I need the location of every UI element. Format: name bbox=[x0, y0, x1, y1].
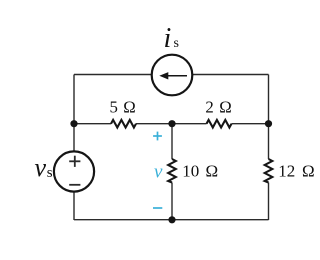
svg-text:5 Ω: 5 Ω bbox=[110, 97, 136, 116]
current source arrow bbox=[165, 75, 188, 77]
svg-text:10 Ω: 10 Ω bbox=[182, 162, 218, 181]
node dot left bbox=[70, 120, 77, 127]
voltage source minus sign bbox=[69, 184, 80, 186]
resistor R 2ohm zigzag bbox=[207, 120, 232, 128]
wire bottom rail bbox=[74, 219, 269, 221]
polarity plus cyan bbox=[153, 135, 162, 137]
wire top rail bbox=[74, 74, 269, 76]
voltage source plus sign bbox=[69, 160, 80, 162]
voltage source vs circle bbox=[54, 151, 94, 191]
wire middle vertical lower bbox=[171, 183, 173, 221]
resistor R 12ohm zigzag vertical bbox=[265, 159, 273, 183]
node dot right bbox=[265, 120, 272, 127]
polarity minus cyan bbox=[153, 207, 162, 209]
svg-text:v: v bbox=[154, 162, 163, 183]
node dot middle bbox=[168, 120, 175, 127]
wire middle rail segment center bbox=[136, 123, 207, 125]
wire middle rail segment right bbox=[232, 123, 269, 125]
svg-text:s: s bbox=[47, 165, 53, 181]
wire right vertical lower bbox=[268, 183, 270, 221]
svg-text:s: s bbox=[174, 36, 179, 51]
wire middle rail segment left bbox=[74, 123, 111, 125]
current source is circle bbox=[152, 55, 193, 96]
wire left vertical bbox=[73, 75, 75, 221]
wire middle vertical upper bbox=[171, 124, 173, 159]
svg-text:i: i bbox=[164, 23, 172, 54]
svg-text:12 Ω: 12 Ω bbox=[278, 162, 314, 181]
svg-text:v: v bbox=[35, 153, 47, 182]
wire right vertical upper bbox=[268, 75, 270, 160]
node dot bottom bbox=[168, 216, 175, 223]
svg-text:2 Ω: 2 Ω bbox=[205, 97, 231, 116]
resistor R 10ohm zigzag vertical bbox=[168, 159, 176, 183]
resistor R 5ohm zigzag bbox=[111, 120, 136, 128]
